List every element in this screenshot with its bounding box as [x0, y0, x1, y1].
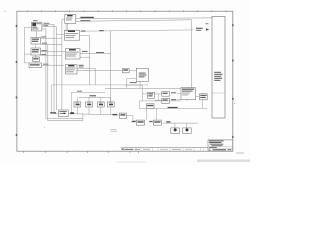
svg-text:D: D: [209, 149, 211, 152]
